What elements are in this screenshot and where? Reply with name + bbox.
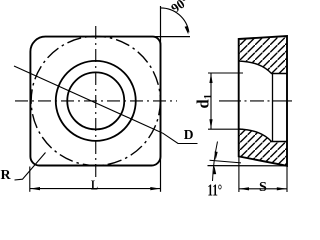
svg-text:L: L xyxy=(91,177,98,193)
svg-text:D: D xyxy=(184,127,194,142)
svg-text:11°: 11° xyxy=(208,181,223,200)
svg-text:R: R xyxy=(1,168,12,183)
svg-text:S: S xyxy=(259,180,267,195)
